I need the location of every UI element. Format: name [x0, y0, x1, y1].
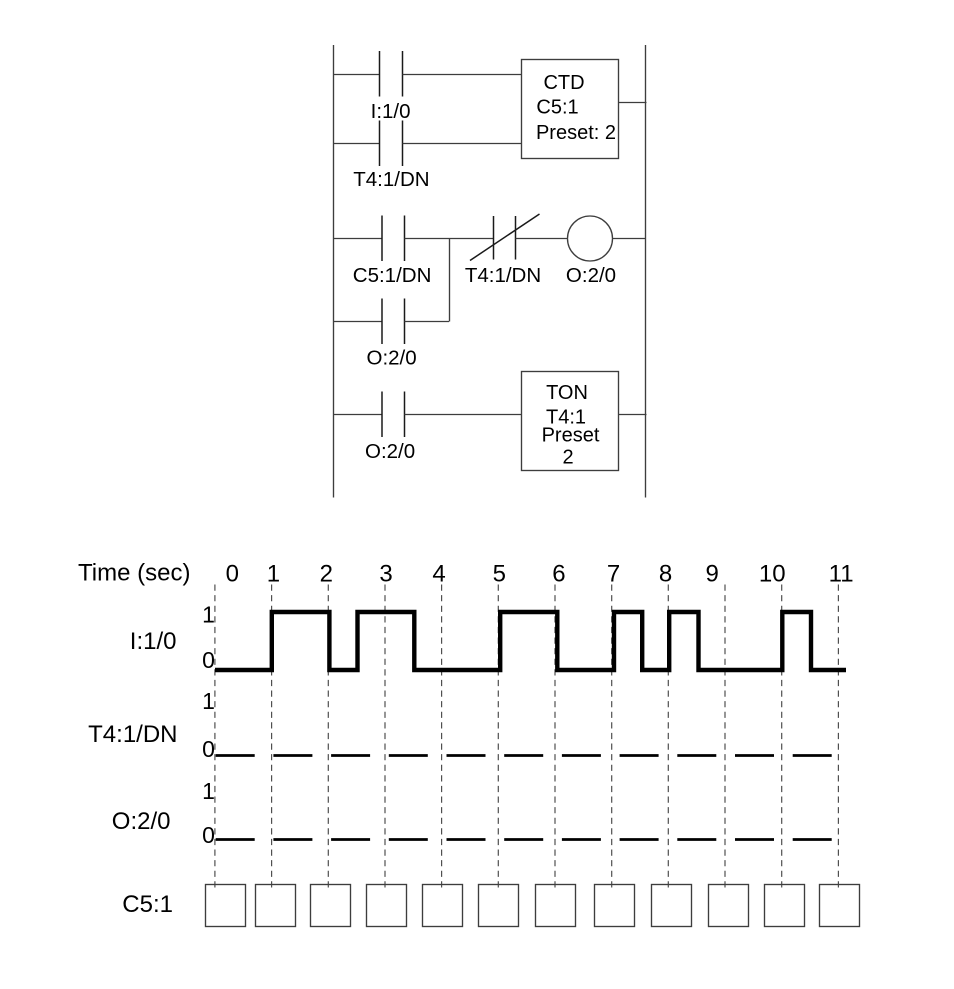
- svg-text:1: 1: [202, 602, 215, 628]
- svg-text:O:2/0: O:2/0: [365, 440, 415, 463]
- wire TON output: [619, 414, 647, 416]
- svg-text:T4:1/DN: T4:1/DN: [465, 264, 541, 287]
- wire rung3 left: [333, 414, 382, 416]
- contact T4:1/DN: [380, 121, 403, 167]
- svg-text:O:2/0: O:2/0: [566, 264, 616, 287]
- contact I:1/0: [380, 51, 403, 97]
- wire rung1 left: [333, 74, 380, 76]
- svg-text:0: 0: [226, 561, 239, 588]
- wire CTD output: [619, 102, 647, 104]
- wire branch T4 left: [333, 143, 380, 145]
- svg-text:CTD: CTD: [543, 72, 584, 94]
- timer U2 TON box: [522, 372, 619, 471]
- svg-text:TON: TON: [546, 382, 588, 404]
- contact C5:1/DN: [382, 216, 405, 262]
- svg-text:C5:1: C5:1: [536, 97, 578, 119]
- T4:1/DN zero-level dashed trace: [216, 754, 832, 757]
- wire branch T4 to CTD: [403, 143, 522, 145]
- svg-text:0: 0: [202, 647, 215, 673]
- svg-text:9: 9: [706, 561, 719, 588]
- wire coil to right rail: [613, 238, 646, 240]
- svg-text:1: 1: [267, 561, 280, 588]
- coil O:2/0: [568, 216, 613, 261]
- svg-text:6: 6: [552, 561, 565, 588]
- svg-text:5: 5: [493, 561, 506, 588]
- svg-text:C5:1/DN: C5:1/DN: [353, 264, 432, 287]
- O:2/0 zero-level dashed trace: [216, 838, 832, 841]
- svg-text:4: 4: [432, 561, 445, 588]
- svg-text:O:2/0: O:2/0: [367, 347, 417, 370]
- svg-text:T4:1/DN: T4:1/DN: [88, 721, 177, 748]
- wire rung3 to TON: [405, 414, 522, 416]
- wire parallel branch right: [405, 321, 450, 323]
- svg-text:8: 8: [659, 561, 672, 588]
- svg-text:10: 10: [759, 561, 786, 588]
- svg-text:2: 2: [320, 561, 333, 588]
- time gridlines t=0..11: [215, 585, 839, 892]
- svg-text:Time (sec): Time (sec): [78, 560, 190, 587]
- left power rail: [333, 45, 335, 498]
- contact O:2/0 (seal-in): [382, 299, 405, 345]
- svg-text:7: 7: [607, 561, 620, 588]
- svg-text:0: 0: [202, 736, 215, 762]
- svg-text:11: 11: [829, 561, 854, 588]
- counter U1 CTD box: [522, 60, 619, 159]
- svg-text:T4:1/DN: T4:1/DN: [353, 168, 429, 191]
- C5:1 accumulator boxes: [206, 885, 860, 927]
- svg-text:2: 2: [562, 447, 573, 469]
- right power rail: [645, 45, 647, 498]
- wire rung1 to CTD: [403, 74, 522, 76]
- wire rung2 left: [333, 238, 382, 240]
- wire parallel branch: [333, 321, 382, 323]
- svg-text:I:1/0: I:1/0: [130, 628, 177, 655]
- wire to coil: [516, 238, 568, 240]
- svg-text:1: 1: [202, 688, 215, 714]
- svg-text:I:1/0: I:1/0: [371, 100, 411, 123]
- svg-text:C5:1: C5:1: [122, 891, 173, 918]
- NC contact T4:1/DN: [470, 214, 540, 261]
- wire rung2 middle: [405, 238, 494, 240]
- svg-text:Preset: Preset: [542, 425, 600, 447]
- junction vertical wire: [449, 239, 451, 322]
- svg-text:3: 3: [379, 561, 392, 588]
- waveform I:1/0: [215, 612, 846, 670]
- svg-text:0: 0: [202, 822, 215, 848]
- svg-text:O:2/0: O:2/0: [112, 808, 171, 835]
- svg-text:1: 1: [202, 778, 215, 804]
- svg-text:Preset: 2: Preset: 2: [536, 122, 616, 144]
- contact O:2/0 (rung3): [382, 392, 405, 438]
